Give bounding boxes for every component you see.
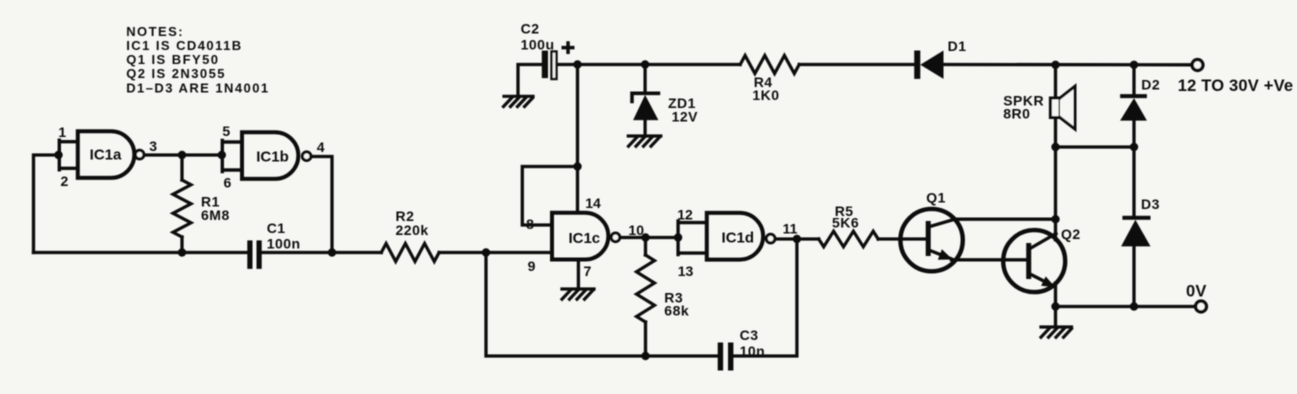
svg-text:12: 12 [677, 206, 693, 222]
node junction Q2 emitter 0V [1051, 302, 1059, 310]
wire supply rail to speaker [1054, 65, 1057, 98]
svg-text:14: 14 [585, 195, 601, 211]
NAND gate IC1d body [707, 213, 763, 260]
ground symbol under ZD1 [628, 136, 661, 146]
wire Q1 collector [930, 219, 1056, 226]
wire ZD1 top stub [643, 65, 646, 93]
svg-text:10n: 10n [740, 343, 766, 359]
svg-text:D3: D3 [1141, 196, 1160, 212]
wire 0V node to ground [1054, 307, 1057, 327]
svg-text:Q1: Q1 [926, 190, 946, 206]
wire bottom-left rail to C1 left plate [34, 251, 248, 254]
capacitor C3 right plate [728, 343, 733, 371]
terminal 0V circle [1196, 301, 1207, 312]
capacitor C3 left plate [718, 343, 723, 371]
wire mid node to D2 anode column [1056, 145, 1135, 148]
wire speaker down to mid node [1054, 118, 1057, 148]
terminal +Ve circle [1192, 60, 1203, 71]
transistor Q1 base bar [926, 221, 931, 256]
svg-text:D1: D1 [948, 38, 967, 54]
wire feedback from IC1a inputs down the left edge [34, 155, 59, 253]
wire C1 right plate to R2 [262, 251, 381, 254]
node junction pin 9 / feedback [482, 248, 490, 256]
diode D3 triangle [1121, 220, 1150, 247]
wire D2 anode to mid wire [1132, 121, 1135, 147]
svg-text:Q2: Q2 [1061, 226, 1081, 242]
speaker SPKR driver rectangle [1050, 98, 1060, 118]
NAND gate IC1c body [552, 213, 608, 260]
svg-text:68k: 68k [664, 303, 689, 319]
wire R3 bottom stub [644, 322, 647, 356]
wire IC1b input bracket pins 5 and 6 [222, 141, 242, 172]
node junction pins 8 and 14 [573, 162, 581, 170]
svg-text:100n: 100n [267, 235, 301, 251]
resistor R3 68k zigzag [637, 255, 655, 322]
wire R4 to D1 [799, 63, 914, 66]
wire R1 bottom stub [180, 237, 183, 253]
ground symbol under IC1c pin 7 [562, 289, 594, 299]
svg-text:1: 1 [58, 124, 66, 140]
speaker SPKR horn [1060, 86, 1075, 129]
svg-text:4: 4 [317, 139, 325, 155]
svg-text:8R0: 8R0 [1003, 106, 1030, 122]
svg-text:IC1b: IC1b [256, 148, 289, 165]
svg-text:IC1a: IC1a [90, 146, 122, 163]
node junction ZD1 on supply [641, 60, 649, 68]
IC1d output bubble [766, 234, 775, 243]
diode D1 triangle [920, 51, 943, 79]
transistor Q1 BFY50 circle [900, 209, 962, 271]
wire mid wire down to D3 [1132, 147, 1135, 216]
wire IC1c pin 8 loop to pin 14 [522, 167, 577, 226]
resistor R4 1K0 zigzag [740, 56, 799, 74]
wire C3 right plate up to node 11 [733, 239, 797, 356]
diode D2 triangle [1120, 98, 1147, 121]
svg-text:10: 10 [628, 222, 644, 238]
capacitor C2 negative plate (open) [552, 52, 557, 80]
svg-text:5K6: 5K6 [832, 215, 859, 231]
svg-text:13: 13 [678, 263, 694, 279]
wire D1 to +Ve terminal [944, 63, 1193, 67]
node junction D2-D3 mid wire [1130, 143, 1138, 151]
wire C2 to ZD1 node and R4 [557, 63, 740, 66]
node 10 junction at R3 top [641, 233, 649, 241]
wire IC1c pin 7 to ground [577, 259, 580, 288]
resistor R2 220k zigzag [381, 244, 439, 262]
svg-text:D2: D2 [1141, 77, 1160, 93]
node 3 junction at R1 top [178, 151, 186, 159]
svg-text:220k: 220k [396, 222, 429, 238]
node junction speaker top on supply [1051, 61, 1059, 69]
svg-text:8: 8 [526, 216, 534, 232]
diode D3 cathode bar [1122, 216, 1150, 220]
svg-text:NOTES:: NOTES: [126, 24, 184, 39]
diode D1 cathode bar [914, 51, 920, 79]
wire ZD1 bottom stub to ground [643, 120, 646, 136]
ground symbol under C2 [504, 96, 534, 106]
wire R2 to node at pin 9 [439, 251, 486, 254]
svg-text:5: 5 [222, 123, 230, 139]
wire R1 top stub [180, 155, 183, 180]
transistor Q1 emitter arrowhead [938, 249, 953, 260]
wire 0V rail to terminal [1056, 305, 1197, 308]
svg-text:Q1 IS BFY50: Q1 IS BFY50 [126, 52, 219, 67]
svg-text:9: 9 [528, 258, 536, 274]
wire node 10 from IC1c output to IC1d inputs [620, 236, 678, 239]
node 11 junction [793, 235, 801, 243]
svg-text:0V: 0V [1186, 282, 1207, 300]
IC1c output bubble [611, 233, 620, 242]
wire C2 ground branch [518, 65, 542, 96]
svg-text:100u: 100u [521, 37, 555, 53]
resistor R1 6M8 zigzag [173, 180, 191, 237]
node junction R1 bottom on rail [178, 248, 186, 256]
svg-text:C3: C3 [740, 327, 759, 343]
svg-text:12 TO 30V +Ve: 12 TO 30V +Ve [1178, 77, 1294, 95]
svg-text:C2: C2 [521, 21, 540, 37]
node junction Q1 collector [1051, 215, 1059, 223]
svg-text:6: 6 [224, 175, 232, 191]
zener ZD1 cathode bar with wing [632, 93, 658, 101]
node junction speaker bottom mid wire [1051, 143, 1059, 151]
svg-text:IC1c: IC1c [568, 230, 600, 247]
svg-text:2: 2 [61, 173, 69, 189]
capacitor C2 polarity plus sign [562, 41, 575, 54]
resistor R5 5K6 zigzag [819, 231, 879, 247]
wire Q2 emitter [1030, 274, 1055, 287]
diode D2 cathode bar [1120, 94, 1147, 98]
wire mid node down past transistors [1054, 147, 1057, 240]
wire IC1a input bracket pins 1 and 2 [59, 140, 78, 170]
wire Q1 emitter to Q2 base [930, 251, 1026, 260]
zener ZD1 triangle [633, 95, 658, 120]
wire node 3 from IC1a output to IC1b inputs [144, 153, 222, 156]
wire node 11 from IC1d output to R5 [775, 237, 819, 240]
wire feedback rail down from pin 9 node [486, 253, 718, 357]
transistor Q2 base bar [1026, 243, 1031, 279]
svg-text:Q2 IS 2N3055: Q2 IS 2N3055 [126, 66, 226, 81]
capacitor C2 positive plate (solid) [542, 51, 548, 79]
node junction D3 on 0V rail [1130, 302, 1138, 310]
node junction IC1a inputs [54, 151, 62, 159]
wire IC1b pin 4 output down to bottom rail [311, 157, 332, 253]
capacitor C1 left plate [247, 240, 252, 269]
svg-text:IC1 IS CD4011B: IC1 IS CD4011B [126, 38, 242, 53]
svg-text:1K0: 1K0 [752, 87, 779, 103]
wire R3 top stub [644, 238, 647, 256]
node junction C2 positive on supply [573, 60, 581, 68]
wire IC1d input bracket pins 12 and 13 [678, 221, 707, 255]
transistor Q2 emitter arrowhead [1041, 276, 1055, 287]
node junction D2 on supply [1130, 61, 1138, 69]
wire D2 top stub [1132, 65, 1135, 95]
wire Q2 collector [1030, 234, 1056, 249]
IC1b output bubble [302, 152, 311, 161]
svg-text:C1: C1 [267, 220, 286, 236]
svg-text:7: 7 [584, 263, 592, 279]
NAND gate IC1b body [242, 132, 298, 179]
svg-text:6M8: 6M8 [201, 207, 230, 223]
svg-text:3: 3 [149, 138, 157, 154]
node junction IC1b inputs [218, 151, 226, 159]
wire Q2 emitter down to 0V rail [1054, 283, 1057, 307]
capacitor C1 right plate [257, 240, 262, 269]
ground symbol under Q2 emitter 0V node [1041, 327, 1072, 337]
op-amp-style NAND gate IC1a body [78, 131, 135, 178]
wire supply node down to IC1c pin 14 [576, 65, 579, 213]
svg-text:12V: 12V [672, 108, 699, 124]
wire D3 anode down to 0V rail [1132, 246, 1135, 306]
svg-text:D1–D3 ARE 1N4001: D1–D3 ARE 1N4001 [126, 81, 269, 96]
node junction R3 bottom on feedback rail [641, 352, 649, 360]
svg-text:11: 11 [783, 221, 798, 237]
node junction IC1d inputs [674, 233, 682, 241]
wire R5 to Q1 base [878, 237, 925, 240]
wire node to IC1c pin 9 [486, 251, 552, 254]
svg-text:IC1d: IC1d [722, 229, 755, 246]
transistor Q2 2N3055 circle [1003, 230, 1065, 292]
node junction pin 4 on rail [328, 248, 336, 256]
IC1a output bubble [135, 150, 144, 159]
